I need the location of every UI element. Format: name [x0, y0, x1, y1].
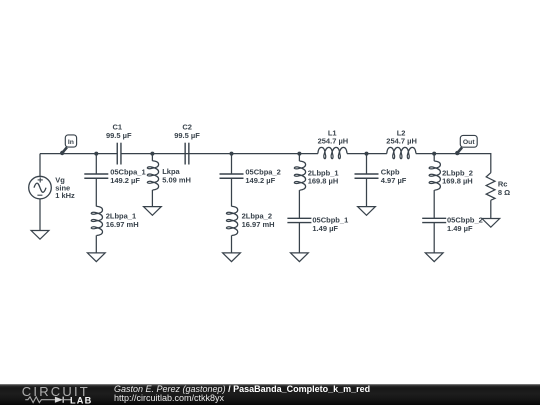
ground under Rc — [482, 219, 500, 228]
label Lkpa — [162, 167, 191, 184]
svg-text:254.7 µH: 254.7 µH — [318, 137, 349, 146]
wire Rc bottom — [490, 200, 492, 218]
svg-text:1.49 µF: 1.49 µF — [447, 224, 473, 233]
ground under 05Cbpb_1 — [291, 253, 309, 262]
footer bar — [0, 384, 540, 405]
label 2Lbpa_1 — [106, 211, 139, 228]
inductor 2Lbpb_2 — [429, 161, 440, 190]
inductor 2Lbpa_1 — [91, 206, 102, 235]
ground under Lkpa — [144, 207, 162, 216]
flag In — [60, 135, 77, 155]
wire C2v — [298, 190, 300, 218]
node C — [297, 152, 301, 156]
svg-text:169.8 µH: 169.8 µH — [442, 177, 473, 186]
wire main segment 3 — [347, 153, 387, 155]
wire D1 — [433, 154, 435, 162]
inductor L2 — [387, 147, 416, 158]
label 2Lbpa_2 — [242, 211, 275, 228]
wire A3 — [95, 235, 97, 253]
label C2 — [174, 123, 200, 140]
svg-text:16.97 mH: 16.97 mH — [106, 220, 139, 229]
wire Lkpa top — [151, 154, 153, 161]
wire C1v — [298, 154, 300, 162]
flag Out — [455, 135, 477, 155]
capacitor C2 — [185, 143, 189, 165]
ground under 05Cbpb_2 — [425, 253, 443, 262]
svg-text:254.7 µH: 254.7 µH — [386, 137, 417, 146]
label C1 — [106, 123, 132, 140]
resistor Rc — [486, 173, 495, 201]
label L2 — [386, 128, 417, 145]
inductor 2Lbpb_1 — [294, 161, 305, 190]
svg-text:5.09 mH: 5.09 mH — [162, 176, 191, 185]
node B — [230, 152, 234, 156]
wire A1 — [95, 154, 97, 174]
inductor 2Lbpa_2 — [226, 206, 237, 235]
wire B1 — [231, 154, 233, 174]
svg-text:149.2 µF: 149.2 µF — [110, 176, 140, 185]
inductor L1 — [318, 147, 347, 158]
wire Vg bottom — [39, 199, 41, 231]
label 05Cbpb_1 — [312, 216, 348, 233]
capacitor Ckpb — [355, 174, 379, 178]
voltage source Vg — [29, 176, 52, 199]
wire main segment 1 — [40, 153, 117, 155]
svg-text:In: In — [68, 139, 74, 146]
wire Ckpb bottom — [366, 178, 368, 206]
wire Rc top — [490, 153, 492, 173]
wire Vg top — [39, 154, 41, 177]
capacitor 05Cbpa_2 — [220, 174, 244, 178]
capacitor 05Cbpb_1 — [287, 218, 311, 222]
wire D2 — [433, 190, 435, 218]
svg-text:LAB: LAB — [70, 395, 92, 405]
wire main segment 4 — [416, 153, 491, 155]
wire main segment 2 — [121, 153, 318, 155]
wire A2 — [95, 178, 97, 206]
label 05Cbpa_2 — [245, 168, 280, 185]
capacitor 05Cbpb_2 — [422, 218, 446, 222]
label 2Lbpb_1 — [308, 168, 339, 185]
wire C3v — [298, 223, 300, 253]
label 05Cbpb_2 — [447, 216, 483, 233]
wire B2 — [231, 178, 233, 206]
CircuitLab logo — [0, 383, 110, 405]
label 2Lbpb_2 — [442, 168, 473, 185]
wire Lkpa bottom — [151, 190, 153, 207]
ground under Vg — [31, 231, 49, 240]
node A — [94, 152, 98, 156]
label L1 — [318, 128, 349, 145]
wire D3 — [433, 223, 435, 253]
svg-text:99.5 µF: 99.5 µF — [174, 131, 200, 140]
ground under Ckpb — [358, 207, 376, 216]
label Ckpb — [381, 168, 407, 185]
wire B3 — [231, 235, 233, 253]
capacitor 05Cbpa_1 — [84, 174, 108, 178]
svg-text:149.2 µF: 149.2 µF — [245, 176, 275, 185]
inductor Lkpa — [147, 161, 158, 190]
svg-text:8 Ω: 8 Ω — [498, 188, 510, 197]
label Vg — [55, 176, 75, 201]
svg-text:169.8 µH: 169.8 µH — [308, 177, 339, 186]
svg-text:Out: Out — [463, 139, 475, 146]
credit text — [114, 385, 370, 403]
svg-text:99.5 µF: 99.5 µF — [106, 131, 132, 140]
svg-text:1 kHz: 1 kHz — [55, 191, 75, 200]
label Rc — [498, 180, 510, 197]
svg-text:16.97 mH: 16.97 mH — [242, 220, 275, 229]
node Lkpa — [150, 152, 154, 156]
node D — [432, 152, 436, 156]
label 05Cbpa_1 — [110, 168, 145, 185]
node Ckpb — [365, 152, 369, 156]
svg-text:4.97 µF: 4.97 µF — [381, 176, 407, 185]
wire Ckpb top — [366, 154, 368, 174]
svg-text:1.49 µF: 1.49 µF — [312, 224, 338, 233]
ground under 2Lbpa_1 — [87, 253, 105, 262]
ground under 2Lbpa_2 — [223, 253, 241, 262]
capacitor C1 — [117, 143, 121, 165]
